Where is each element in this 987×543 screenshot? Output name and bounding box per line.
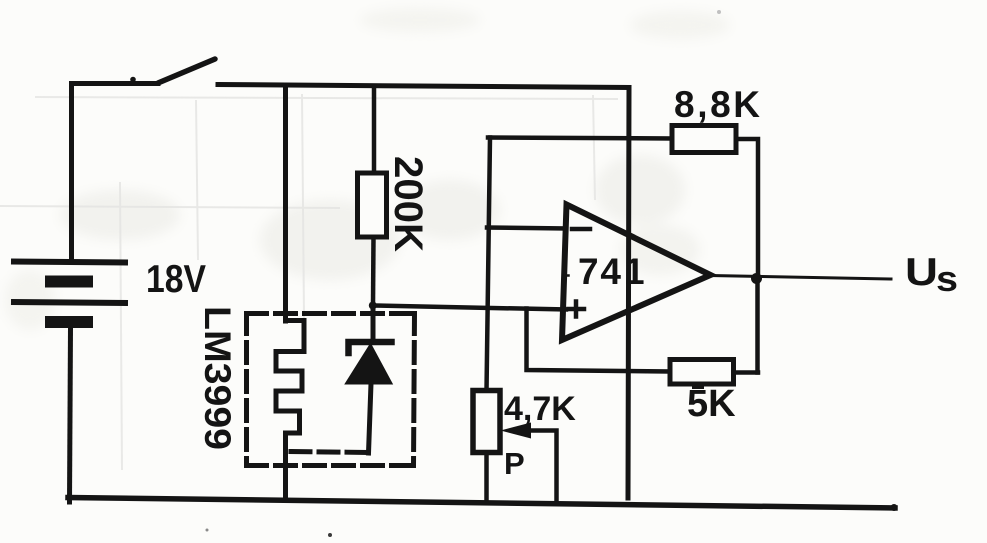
wire 200K top lead (372, 87, 377, 174)
battery plate long 2 (11, 302, 128, 303)
wire 5K right lead (734, 370, 759, 375)
potentiometer P top lead (487, 138, 491, 392)
tiny edge tick (564, 274, 569, 277)
node junction dot (369, 302, 377, 310)
faint scan grid artifacts (0, 94, 618, 470)
zener triangle (346, 345, 392, 384)
svg-text:1: 1 (624, 251, 645, 292)
wire top rail (218, 85, 629, 88)
inner dashed lead to zener bottom (291, 452, 370, 453)
op-amp U1 741 triangle (562, 205, 711, 341)
svg-text:4,7K: 4,7K (504, 390, 576, 428)
wire 5K left lead (527, 309, 671, 372)
wire battery top lead (72, 84, 159, 262)
svg-text:LM3999: LM3999 (197, 306, 238, 450)
wire op-amp minus input (487, 228, 566, 229)
5K label merge blob (692, 382, 704, 389)
wire 8.8K right lead (736, 139, 758, 278)
resistor R1 200K body (358, 173, 387, 237)
resistor R2 8.8K body (672, 126, 736, 153)
LM3999 dashed box (247, 314, 415, 466)
wire output to 5K (755, 279, 760, 373)
zener cathode bar (349, 342, 392, 353)
svg-text:18V: 18V (146, 258, 206, 301)
potentiometer bottom lead (484, 453, 489, 500)
wire output (711, 276, 892, 280)
svg-text:74: 74 (578, 251, 621, 292)
output node dot (751, 273, 762, 284)
wire battery bottom lead (70, 328, 71, 502)
battery plate short thick 1 (45, 276, 93, 288)
potentiometer P body 4.7K (473, 391, 500, 453)
svg-text:5K: 5K (687, 383, 736, 425)
wire 200K bottom lead (371, 237, 376, 306)
bottom rail end dot (891, 504, 898, 511)
wire feedback top horizontal (488, 138, 672, 139)
zener diode D1 top lead (371, 306, 376, 341)
svg-text:P: P (504, 446, 525, 481)
svg-text:s: s (936, 258, 958, 299)
wire supply vertical through op-amp (628, 88, 629, 499)
resistor R3 5K body (670, 360, 734, 385)
potentiometer wiper arrow (501, 423, 532, 439)
wire bottom rail (68, 498, 895, 509)
battery B1 18V plate long top (11, 262, 128, 263)
svg-text:U: U (905, 251, 938, 294)
battery plate short thick 2 (45, 316, 93, 328)
wire op-amp plus input (373, 306, 566, 310)
scan specks (328, 533, 332, 537)
switch S1 blade (158, 59, 215, 83)
wire LM3999 heater top lead (283, 86, 288, 321)
plus sign (569, 307, 585, 312)
heater element meander of U2 (276, 321, 304, 498)
svg-text:200K: 200K (386, 156, 430, 252)
switch contact nub (130, 77, 136, 83)
zener bottom lead (369, 384, 372, 454)
minus sign (572, 227, 590, 232)
svg-text:8,8K: 8,8K (674, 84, 760, 125)
wiper tail wire (529, 431, 557, 500)
